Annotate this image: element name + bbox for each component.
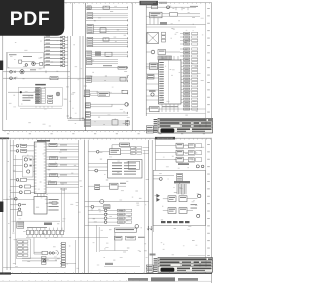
control unit U1 (158, 56, 183, 104)
wire (85, 112, 128, 118)
relay K12 (88, 183, 126, 190)
node 31 marker (0, 202, 3, 213)
bus 30 (84, 140, 86, 274)
relay box A2 (108, 160, 143, 179)
wire (78, 140, 80, 274)
connector X6 (184, 62, 198, 110)
lamp E2 (146, 6, 198, 11)
control unit U3 (34, 197, 59, 215)
relay K2 (87, 24, 128, 33)
wire (60, 263, 140, 267)
wire (60, 145, 67, 190)
wire (128, 277, 198, 281)
bus 15 (145, 3, 147, 116)
relay K18 (163, 204, 200, 217)
fuse F1 (3, 77, 92, 80)
wire (47, 143, 79, 151)
bus 15 (9, 140, 11, 270)
bus bar (177, 184, 186, 194)
wire (6, 52, 8, 120)
wire (69, 36, 71, 119)
relay K14 (156, 150, 202, 155)
bus 15 (87, 140, 89, 274)
node 30 (140, 1, 168, 5)
relay K13 (156, 143, 202, 148)
resistor R1 (86, 65, 128, 69)
wire (127, 6, 129, 126)
bus 58 (12, 140, 14, 232)
lamp E10 (10, 204, 26, 207)
wire (146, 64, 158, 100)
wire (174, 181, 190, 183)
relay K3 (87, 37, 128, 46)
wire (3, 69, 70, 74)
wire (87, 58, 119, 64)
connector X14 (60, 242, 65, 267)
lamp E8 (156, 139, 204, 170)
switch S1 (7, 53, 43, 69)
wire (47, 182, 79, 188)
relay K8 (146, 63, 157, 70)
wire (79, 36, 81, 121)
lamp E6 (10, 191, 35, 194)
wire (82, 36, 84, 121)
connector X12 (161, 221, 190, 223)
node 31 marker (0, 61, 3, 71)
connector X5 (180, 48, 198, 61)
lamp E5 (10, 185, 35, 188)
relay K7 (146, 12, 200, 18)
relay K17 (163, 194, 201, 201)
lamp E3 (10, 144, 34, 147)
wire (146, 16, 205, 27)
wire (88, 164, 107, 172)
wire (131, 3, 133, 131)
bus 30 (6, 140, 8, 270)
wire (47, 164, 79, 170)
wire (75, 240, 77, 274)
connector X1 (44, 36, 68, 69)
control unit U2 (34, 140, 50, 194)
connector X15 (42, 257, 47, 265)
gauge P1 (13, 156, 35, 177)
connector X9 (17, 239, 31, 259)
wire (47, 192, 79, 194)
diode V1 (155, 194, 160, 202)
wire (26, 223, 108, 238)
title block (146, 258, 212, 273)
wire (8, 91, 35, 93)
connector X4 (180, 32, 198, 45)
lamp E9 (10, 198, 17, 201)
lamp E11 (10, 178, 34, 181)
wire (144, 150, 146, 274)
title block (146, 118, 212, 133)
lamp E4 (10, 149, 34, 152)
relay K11 (88, 149, 120, 155)
wire (47, 157, 79, 160)
terminal strip X8 (26, 227, 63, 237)
resistor R2 (85, 225, 139, 253)
sensor B1 (146, 50, 180, 55)
switch S2 (86, 51, 128, 57)
wire (68, 119, 86, 120)
wire (3, 258, 61, 267)
relay K1 (86, 6, 128, 10)
bus X (148, 140, 150, 274)
wire (3, 194, 44, 200)
wire (153, 226, 155, 232)
lamp E1 (85, 103, 128, 108)
wire (63, 188, 65, 232)
bus 58b (15, 155, 17, 265)
PDF badge (0, 0, 64, 36)
relay K15 (156, 157, 202, 162)
wire (72, 3, 74, 36)
svg-text:PDF: PDF (10, 8, 51, 30)
wire (47, 174, 79, 177)
relay K4 (86, 76, 128, 82)
switch S4 (10, 208, 22, 215)
lamp E7 (85, 205, 110, 209)
connector X13 (34, 238, 58, 256)
connector X2 (56, 92, 60, 96)
wire (150, 254, 206, 256)
motor M1 (147, 32, 166, 43)
wire (67, 36, 69, 119)
junction box A3 (153, 170, 205, 225)
connector X11 (88, 209, 132, 223)
connector X7 (146, 104, 205, 114)
relay K16 (153, 174, 182, 185)
relay K5 (85, 90, 129, 97)
bus Y (151, 140, 153, 274)
fuse box A1 (18, 84, 62, 109)
flasher unit K9 (13, 221, 60, 228)
switch S5 (112, 143, 130, 149)
wire (61, 188, 63, 232)
ground (147, 226, 152, 230)
switch S6 (100, 232, 145, 250)
relay K6 (84, 119, 129, 126)
connector X3 (86, 13, 128, 20)
bus 30 (85, 3, 87, 131)
horn B2 (85, 199, 149, 203)
connector X10 (121, 147, 149, 155)
